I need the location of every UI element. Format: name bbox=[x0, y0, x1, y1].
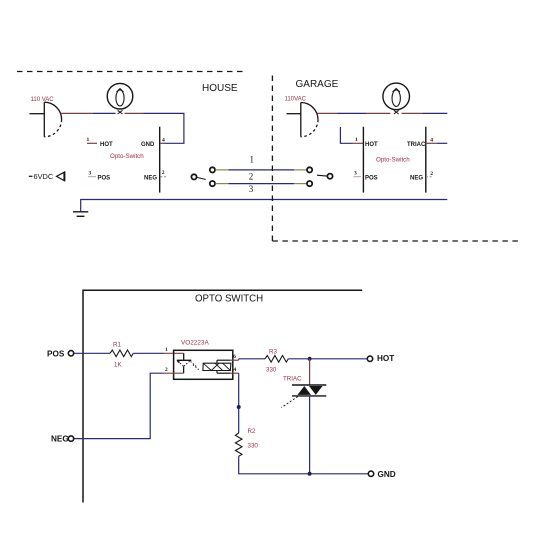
wire: house AC source lead bbox=[61, 112, 93, 114]
svg-text:R3: R3 bbox=[269, 349, 277, 356]
bend stub pin6 bbox=[238, 359, 240, 360]
wire: R3 to junction bbox=[288, 358, 309, 360]
wire: NEG up to U1 pin2 bbox=[74, 373, 164, 438]
U1 internal LED bbox=[177, 353, 192, 373]
HOT terminal (lower) bbox=[367, 354, 394, 363]
pin 1 stub (garage HOT) bbox=[353, 142, 364, 144]
svg-text:1: 1 bbox=[355, 137, 358, 143]
svg-text:1: 1 bbox=[87, 137, 90, 143]
svg-text:OPTO SWITCH: OPTO SWITCH bbox=[195, 294, 263, 305]
wire: garage lamp right lead bbox=[402, 112, 423, 114]
svg-text:2: 2 bbox=[162, 170, 165, 176]
connector J1 pin (left outer) bbox=[191, 174, 205, 179]
svg-text:110 VAC: 110 VAC bbox=[31, 97, 55, 103]
svg-text:1: 1 bbox=[250, 155, 255, 165]
wire: junction down to triac bbox=[309, 359, 311, 385]
connector circle wire3 left bbox=[210, 181, 215, 186]
pin 4 stub (garage TRIAC) bbox=[426, 142, 437, 144]
svg-text:3: 3 bbox=[354, 171, 357, 177]
wire 1 stub left bbox=[215, 169, 228, 171]
resistor R1 bbox=[110, 342, 133, 369]
AC source V1 (house) bbox=[30, 102, 62, 137]
triac Q1 bbox=[282, 385, 327, 408]
svg-text:POS: POS bbox=[47, 349, 65, 358]
junction node A bbox=[308, 357, 312, 361]
wire: garage top end bbox=[422, 112, 447, 114]
svg-text:VO2223A: VO2223A bbox=[181, 340, 209, 347]
pin 3 stub (house POS) bbox=[88, 176, 96, 178]
ground symbol bbox=[73, 212, 88, 217]
6VDC power port bbox=[29, 171, 65, 181]
svg-text:1: 1 bbox=[165, 347, 168, 353]
svg-text:R1: R1 bbox=[113, 342, 121, 349]
wire: house lamp right lead bbox=[125, 112, 144, 114]
svg-text:4: 4 bbox=[234, 367, 237, 373]
U1 bottom lead to pin 4 bbox=[217, 371, 230, 374]
wire 1 bbox=[229, 169, 295, 171]
svg-text:HOT: HOT bbox=[100, 142, 113, 148]
connector circle wire1 right bbox=[307, 167, 312, 172]
U1 top lead to pin 6 bbox=[217, 360, 230, 363]
svg-text:6VDC: 6VDC bbox=[34, 172, 54, 181]
svg-text:NEG: NEG bbox=[51, 435, 69, 444]
svg-text:110VAC: 110VAC bbox=[285, 97, 307, 103]
svg-text:3: 3 bbox=[249, 184, 254, 194]
svg-text:4: 4 bbox=[162, 137, 165, 143]
svg-text:R2: R2 bbox=[248, 428, 256, 435]
lamp DS1 (house) bbox=[107, 83, 133, 114]
opto-switch box side (house) bbox=[159, 127, 161, 193]
connector J2 pin (right outer) bbox=[317, 174, 333, 179]
wire 3 bbox=[229, 183, 295, 185]
pin stub GND pin4 (house) bbox=[160, 142, 164, 144]
opto-switch box right side (garage) bbox=[425, 127, 427, 193]
wire: garage top segment bbox=[338, 112, 367, 114]
svg-text:HOUSE: HOUSE bbox=[202, 83, 238, 94]
svg-text:POS: POS bbox=[98, 175, 111, 181]
wire: U1 pin4 down bbox=[238, 373, 240, 433]
svg-text:TRIAC: TRIAC bbox=[283, 376, 302, 383]
wire 3 stub left bbox=[215, 183, 228, 185]
wire: house top segment bbox=[93, 112, 116, 114]
svg-text:GND: GND bbox=[141, 142, 155, 148]
opto-coupler U1 VO2223A box bbox=[174, 340, 233, 380]
svg-text:Opto-Switch: Opto-Switch bbox=[110, 153, 144, 160]
junction node C bbox=[308, 472, 312, 476]
pin 6 stub (U1) bbox=[230, 359, 238, 361]
wire 1 stub right bbox=[294, 169, 307, 171]
wire: garage HOT drop bbox=[340, 127, 352, 143]
opto switch assembly box border bbox=[83, 290, 362, 502]
svg-text:Opto-Switch: Opto-Switch bbox=[376, 157, 410, 164]
wire: U1 pin6 to R3 bbox=[239, 358, 265, 360]
pin 2 stub (U1) bbox=[164, 372, 184, 374]
resistor R3 bbox=[265, 349, 288, 374]
svg-text:6: 6 bbox=[233, 354, 236, 360]
svg-text:HOT: HOT bbox=[377, 354, 394, 363]
svg-text:HOT: HOT bbox=[365, 142, 378, 148]
wire: R1 to opto bbox=[133, 352, 164, 354]
house dashed border top bbox=[17, 71, 245, 73]
pin 4 stub (U1) bbox=[230, 372, 238, 374]
resistor R2 bbox=[235, 428, 258, 456]
svg-text:2: 2 bbox=[430, 171, 433, 177]
junction node B bbox=[237, 405, 241, 409]
wire: garage AC lead bbox=[317, 112, 337, 114]
svg-text:330: 330 bbox=[266, 367, 277, 374]
connector circle wire3 right bbox=[307, 181, 312, 186]
pin 1 stub (U1) bbox=[164, 352, 184, 354]
pin 3 stub (garage POS) bbox=[354, 176, 362, 178]
wire: POS to R1 bbox=[74, 352, 110, 354]
lamp DS2 (garage) bbox=[383, 83, 410, 114]
svg-text:GND: GND bbox=[378, 470, 396, 479]
pin 1 stub (house HOT) bbox=[87, 142, 97, 144]
pin 2 stub (house NEG) bbox=[160, 176, 166, 178]
opto-switch box left side (garage) bbox=[362, 127, 364, 193]
U1 light arrows bbox=[191, 362, 200, 371]
svg-text:2: 2 bbox=[165, 367, 168, 373]
garage dashed border bottom bbox=[272, 240, 520, 242]
svg-text:1K: 1K bbox=[114, 362, 122, 369]
svg-text:NEG: NEG bbox=[144, 175, 157, 181]
wire: garage TRIAC out bbox=[437, 142, 448, 144]
AC source V2 (garage) bbox=[287, 103, 319, 137]
wire: house top to corner bbox=[144, 113, 184, 143]
svg-text:GARAGE: GARAGE bbox=[296, 79, 339, 90]
garage dashed border left bbox=[271, 76, 273, 242]
wire: garage lamp left lead bbox=[366, 112, 390, 114]
wire 3 stub right bbox=[294, 183, 307, 185]
NEG terminal (lower) bbox=[51, 435, 74, 444]
wire: R2 to bottom bbox=[239, 456, 369, 474]
GND terminal (lower) bbox=[368, 470, 395, 479]
wire: triac down to gnd bus bbox=[309, 396, 311, 474]
svg-text:330: 330 bbox=[248, 442, 259, 449]
connector circle wire1 left bbox=[210, 167, 215, 172]
svg-text:NEG: NEG bbox=[410, 175, 423, 181]
POS terminal (lower) bbox=[47, 349, 74, 358]
U1 internal triac bbox=[203, 363, 231, 370]
wire: ground bus bbox=[81, 200, 448, 212]
svg-text:2: 2 bbox=[249, 172, 254, 182]
wire: junction to HOT bbox=[310, 358, 368, 360]
pin 2 stub (garage NEG) bbox=[426, 176, 432, 178]
svg-text:TRIAC: TRIAC bbox=[407, 142, 426, 148]
svg-text:POS: POS bbox=[365, 175, 378, 181]
svg-text:3: 3 bbox=[89, 171, 92, 177]
svg-text:4: 4 bbox=[430, 137, 433, 143]
